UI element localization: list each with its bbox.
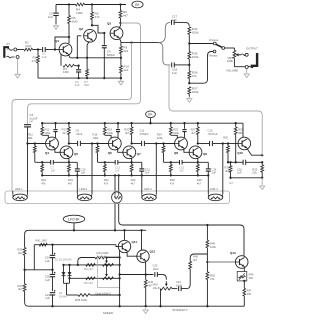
svg-text:Q1: Q1 — [55, 39, 59, 43]
svg-text:4k7: 4k7 — [125, 131, 130, 135]
wire Q12 collector — [141, 230, 143, 250]
svg-text:100k: 100k — [107, 131, 113, 135]
svg-text:R20: R20 — [124, 128, 129, 132]
svg-text:R49: R49 — [249, 273, 254, 277]
wire Q9 emitter down — [197, 158, 199, 162]
svg-text:C13: C13 — [115, 165, 120, 169]
wire Q11 emitter to Q12 base — [127, 251, 137, 256]
svg-text:100k: 100k — [173, 131, 179, 135]
wire: bottom feedback with R45x — [67, 294, 79, 296]
wire Q6 emitter to Q7 base — [118, 148, 124, 153]
junction dots on rail — [68, 3, 70, 5]
jack sleeve + ground — [245, 66, 248, 69]
ground below R10 — [120, 80, 122, 82]
resistor R15 (47k) — [41, 162, 43, 164]
resistor R24 (100k base bias) — [163, 144, 165, 146]
svg-text:INTENSITY: INTENSITY — [172, 308, 188, 312]
svg-text:1uF: 1uF — [145, 171, 150, 175]
svg-text:LDR-3: LDR-3 — [144, 187, 152, 191]
resistor R4 (100k, in rail) — [76, 3, 85, 6]
resistor R11 (68k base bias) — [34, 144, 36, 146]
capacitor C23 (10uF) — [172, 288, 177, 290]
resistor R41 (1M2) — [39, 243, 47, 246]
wire collector jog to Q4 — [42, 135, 48, 138]
svg-text:47k: 47k — [210, 277, 215, 281]
capacitor C22 (10uF) — [154, 272, 156, 277]
svg-text:100k: 100k — [192, 55, 199, 59]
jack sleeve terminal — [7, 56, 15, 58]
svg-text:47k: 47k — [170, 181, 175, 185]
wire: oscillator chain 2 — [70, 277, 120, 279]
wire Q2 collector to Q3 base — [91, 24, 93, 26]
svg-text:1uF: 1uF — [212, 171, 217, 175]
wire: stage 3 emitter bus — [164, 161, 180, 163]
svg-text:68k: 68k — [28, 136, 33, 140]
svg-text:47k: 47k — [104, 181, 109, 185]
svg-text:1uF: 1uF — [179, 169, 184, 173]
transistor Q1 — [59, 43, 72, 56]
capacitor C21 (1uF) — [50, 292, 55, 294]
resistor R13 (4k7) — [68, 123, 70, 127]
resistor R32 (4k7) — [230, 162, 232, 165]
svg-text:100k: 100k — [192, 30, 199, 34]
svg-text:R29: R29 — [197, 178, 202, 182]
svg-text:R28: R28 — [170, 178, 175, 182]
svg-text:R42 4k7: R42 4k7 — [84, 268, 94, 271]
ground of LFO — [145, 308, 147, 310]
svg-text:2k2: 2k2 — [123, 49, 128, 53]
resistor R12 (100k collector load) — [41, 123, 43, 127]
svg-text:100k: 100k — [45, 131, 51, 135]
switch contact: Vibrato — [213, 50, 216, 53]
resistor R27 (4k7) — [197, 123, 199, 127]
svg-text:150: 150 — [247, 292, 252, 296]
svg-text:Chorus: Chorus — [209, 38, 219, 42]
svg-text:100k: 100k — [227, 59, 234, 63]
ground below input jack — [17, 73, 19, 75]
junction node R1/R2/C1 — [37, 48, 39, 50]
node Q7 collector / stage 2 output — [130, 142, 132, 144]
resistor R31 (68k) — [235, 123, 237, 127]
wire W2: Q3 collector to phaser input (long gray route) — [28, 23, 141, 124]
LDR-3 — [141, 175, 143, 194]
capacitor C17 (1uF chorus) — [171, 20, 173, 25]
svg-text:C22: C22 — [153, 264, 158, 268]
svg-text:470k: 470k — [25, 44, 32, 48]
ground at phaser output divider — [261, 184, 263, 186]
svg-text:10uF: 10uF — [176, 283, 182, 287]
capacitor C20 (1uF) — [52, 270, 54, 274]
LDR-2 — [76, 175, 78, 194]
wire riser to Q2 base — [76, 36, 78, 58]
svg-text:Q6: Q6 — [108, 151, 112, 155]
capacitor C9 (.22uF coupling) — [77, 141, 79, 146]
wire to chorus cap C17 — [159, 22, 171, 42]
svg-text:R46: R46 — [193, 255, 198, 259]
wire Q12 emitter — [145, 261, 147, 274]
wire: LFO ground rail — [29, 305, 245, 307]
svg-text:1uF: 1uF — [75, 83, 80, 87]
wire to vibrato cap C18 — [159, 43, 171, 65]
resistor R10 (1k2) — [120, 58, 122, 66]
svg-text:1N34A: 1N34A — [59, 295, 67, 298]
wire collector jog to Q6 — [105, 135, 111, 138]
svg-text:R30: R30 — [223, 135, 228, 139]
wire to vibrato switch contact — [189, 52, 213, 84]
svg-text:R15: R15 — [41, 178, 46, 182]
wire: stage 1 emitter bus — [35, 161, 51, 163]
svg-text:Q4: Q4 — [45, 151, 49, 155]
svg-text:22k: 22k — [252, 171, 257, 175]
svg-text:R50: R50 — [210, 274, 215, 278]
wire link y269.8 — [25, 269, 53, 271]
svg-text:R48: R48 — [210, 242, 215, 246]
wire: feedback line with R44 — [78, 258, 95, 265]
wire: right bus of phase network — [119, 245, 121, 295]
wire: lamp drive line to Q13 — [119, 221, 244, 256]
svg-text:C15: C15 — [208, 129, 213, 133]
resistor R48 (100k) — [206, 225, 208, 240]
svg-text:R43 4k7: R43 4k7 — [84, 282, 94, 285]
svg-text:R22: R22 — [131, 178, 136, 182]
resistor R19 (4k7) — [68, 162, 70, 164]
resistor R43 (4k7) — [86, 277, 95, 280]
svg-text:D1 D2 1N4148: D1 D2 1N4148 — [55, 259, 72, 262]
svg-text:R21: R21 — [104, 178, 109, 182]
VR5 wiper arrow to output — [235, 53, 238, 56]
resistor R8 (4k7) — [120, 5, 122, 11]
svg-text:8k6: 8k6 — [84, 83, 89, 87]
transistor Q11 — [118, 240, 130, 252]
wire Q10 collector to rail — [242, 123, 244, 137]
svg-text:R24: R24 — [157, 133, 162, 137]
svg-text:4k7: 4k7 — [229, 181, 234, 185]
resistor R3 (1M0) — [63, 64, 75, 67]
resistor R7 (8k6 emitter) — [86, 58, 88, 70]
capacitor C15 (.0047uF coupling) — [209, 141, 211, 146]
svg-text:1uF: 1uF — [45, 296, 50, 300]
wire: phaser ground bus — [42, 174, 208, 176]
svg-text:.0047uF: .0047uF — [208, 132, 218, 136]
svg-text:4k7: 4k7 — [62, 131, 67, 135]
resistor R46 (4k7) — [189, 261, 192, 269]
B+ rail of phaser section — [42, 122, 243, 124]
svg-text:10uF: 10uF — [153, 267, 159, 271]
wire: stage 2 base line — [92, 143, 109, 145]
capacitor C1 (1uF input coupling) — [42, 47, 44, 52]
wire common return line — [38, 77, 121, 79]
svg-text:4k7: 4k7 — [131, 181, 136, 185]
svg-text:4k7: 4k7 — [68, 181, 73, 185]
resistor R38 (220k) — [78, 294, 90, 297]
diode D2 (1N4148) — [69, 265, 71, 283]
svg-text:1M0: 1M0 — [72, 19, 78, 23]
capacitor C3 (1uF) — [78, 66, 80, 70]
wire sleeve to ground — [17, 59, 19, 73]
resistor R25 (100k collector load) — [170, 123, 172, 127]
svg-text:100k: 100k — [76, 11, 83, 15]
wire Q8 emitter to Q9 base — [184, 148, 190, 153]
wire Q11 collector — [124, 230, 126, 240]
svg-text:VOLUME: VOLUME — [226, 69, 238, 73]
LDR-4 — [207, 175, 209, 194]
svg-text:4k7: 4k7 — [197, 181, 202, 185]
svg-text:LDR-2: LDR-2 — [79, 187, 87, 191]
svg-text:Q2: Q2 — [79, 27, 83, 31]
svg-text:1uF: 1uF — [172, 18, 177, 22]
svg-text:R32: R32 — [225, 165, 230, 169]
svg-text:C11: C11 — [140, 129, 145, 133]
svg-text:B+: B+ — [148, 113, 152, 117]
svg-text:Q13: Q13 — [230, 251, 236, 255]
capacitor C18 (1uF vibrato) — [171, 62, 173, 67]
transistor Q13 (lamp driver) — [235, 256, 248, 269]
transistor Q9 — [189, 146, 202, 159]
resistor R1 (470k input) — [17, 49, 24, 51]
svg-text:Q10: Q10 — [237, 151, 243, 155]
svg-text:C9: C9 — [76, 129, 80, 133]
pot VR1b (speed gang B) — [103, 277, 114, 280]
resistor R45 (4k7) — [145, 275, 147, 281]
svg-text:C13: C13 — [179, 165, 184, 169]
wire: stage 2 emitter bus — [98, 161, 116, 163]
svg-text:1uF: 1uF — [81, 171, 86, 175]
wire base jog — [116, 245, 118, 247]
svg-text:68k: 68k — [238, 131, 243, 135]
resistor R2 (47k to ground) — [37, 50, 39, 56]
svg-text:OUTPUT: OUTPUT — [246, 46, 258, 50]
resistor R36 (47k) — [188, 65, 190, 71]
svg-text:C7: C7 — [51, 165, 55, 169]
wire: LFO output line — [120, 274, 154, 276]
resistor R6 (47k collector load) — [91, 5, 93, 13]
wire Q13 emitter — [243, 267, 245, 271]
pot VR2 (10k-B intensity) — [165, 281, 167, 285]
wire Q1 base-bias branch down — [60, 55, 62, 66]
capacitor C5 (1uF supply filter) — [55, 5, 57, 13]
wire Q3 emitter line — [120, 39, 121, 42]
svg-text:R12: R12 — [45, 128, 50, 132]
resistor R50 (47k) — [206, 262, 208, 272]
resistor R16 (100k base bias) — [97, 144, 99, 146]
node Q13 base feed — [206, 261, 208, 263]
svg-text:C14: C14 — [212, 167, 217, 171]
switch contact: Chorus — [213, 42, 216, 45]
node Q9 collector / stage 3 output — [197, 142, 199, 144]
wire Q1 emitter line — [68, 54, 70, 58]
svg-text:47k: 47k — [192, 74, 197, 78]
svg-text:4k7: 4k7 — [191, 131, 196, 135]
svg-text:Q3: Q3 — [107, 22, 111, 26]
resistor R28 (47k) — [170, 162, 172, 164]
svg-text:Q8: Q8 — [174, 151, 178, 155]
svg-text:1uF: 1uF — [45, 278, 50, 282]
svg-text:R27: R27 — [191, 128, 196, 132]
capacitor C12 (1uF electrolytic) — [141, 162, 143, 168]
resistor R47 (150) — [243, 281, 245, 288]
lamp leads — [114, 175, 116, 192]
stage 4: base line — [223, 143, 239, 145]
potentiometer VR5 (100k volume) — [233, 48, 235, 50]
transistor Q2 — [84, 29, 97, 42]
resistor R18 (100k collector load) — [104, 123, 106, 127]
svg-text:4k7: 4k7 — [18, 287, 23, 291]
resistor R37 (220k) — [188, 87, 191, 95]
lamp — [112, 192, 122, 203]
wire W3: phaser output up to chorus/vibrato (gray route) — [169, 65, 262, 155]
svg-text:1uF: 1uF — [42, 55, 47, 59]
input jack IN — [4, 47, 9, 58]
svg-text:47k: 47k — [95, 15, 100, 19]
svg-text:Q7: Q7 — [137, 152, 141, 156]
wire: LFO supply rail — [29, 229, 147, 231]
resistor R21 (47k) — [104, 162, 106, 164]
svg-text:C23: C23 — [176, 280, 181, 284]
ground below C5 — [55, 24, 57, 26]
resistor R29 (4k7) — [197, 162, 199, 164]
svg-text:Vibrato: Vibrato — [209, 54, 218, 58]
svg-text:NP: NP — [30, 119, 34, 123]
wire Q7 emitter down — [131, 158, 133, 162]
transistor Q5 — [60, 146, 73, 159]
svg-text:IN: IN — [7, 42, 10, 46]
transistor Q10 — [238, 137, 251, 150]
node: chorus tap — [188, 42, 190, 44]
svg-text:LFO B+: LFO B+ — [68, 217, 80, 221]
svg-text:VR2: VR2 — [153, 283, 159, 287]
svg-text:LDR-4: LDR-4 — [210, 187, 218, 191]
capacitor C6 (phaser input, 2x1uF) — [24, 124, 31, 126]
resistor R22 (4k7) — [131, 162, 133, 164]
svg-text:C16: C16 — [237, 167, 242, 171]
svg-text:R33: R33 — [252, 167, 257, 171]
wire: diode bottoms — [64, 282, 70, 284]
svg-text:Q5: Q5 — [74, 152, 78, 156]
svg-text:R16: R16 — [93, 133, 98, 137]
svg-text:100k: 100k — [157, 136, 163, 140]
transistor Q7 — [123, 146, 136, 159]
node Q5 collector / stage 1 output — [68, 142, 70, 144]
capacitor C16 (1uF) — [242, 160, 244, 165]
svg-text:Q11: Q11 — [132, 240, 138, 244]
svg-text:R18: R18 — [107, 128, 112, 132]
resistor R5 (1M0) with feedback wire to Q1 base — [68, 5, 70, 16]
svg-text:1uF: 1uF — [48, 15, 53, 19]
capacitor C4 (680pF at Q3 base) — [103, 32, 105, 34]
svg-text:R13: R13 — [62, 128, 67, 132]
LFO B+ oval — [63, 215, 85, 223]
wire Q3 collector node — [119, 26, 120, 29]
dual gang box (speed pot) — [98, 257, 120, 288]
transistor Q4 — [46, 137, 59, 150]
svg-text:220k: 220k — [192, 90, 199, 94]
resistor R30 (4k7 base bias) — [227, 144, 229, 146]
ground below R37 — [188, 97, 190, 99]
svg-text:LDR-1: LDR-1 — [15, 187, 23, 191]
svg-text:R11: R11 — [28, 133, 33, 137]
svg-text:R41 1M2: R41 1M2 — [36, 238, 48, 242]
wire Q10 emitter to output node — [247, 148, 262, 155]
resistor R42 (4k7) — [86, 264, 95, 267]
svg-text:1uF: 1uF — [172, 71, 177, 75]
svg-text:10k-B: 10k-B — [153, 286, 160, 290]
svg-text:4k7: 4k7 — [225, 169, 230, 173]
wire Q5 emitter down — [68, 158, 70, 162]
svg-text:1uF: 1uF — [51, 169, 56, 173]
node: phaser output — [261, 154, 263, 156]
diode D1 (1N4148) — [63, 265, 65, 283]
pot VR1a (speed gang A) — [103, 264, 114, 267]
wire W1: to LDR-1 (long gray route) — [12, 43, 132, 191]
resistor R9 (2k2) — [120, 43, 122, 47]
svg-text:2k2: 2k2 — [18, 251, 23, 255]
resistor R39 (2k2) — [24, 234, 26, 247]
switch arm and pole (chorus/vibrato switch) — [216, 44, 222, 47]
resistor R33 (22k) — [261, 162, 263, 165]
capacitor (rail bypass) at stage 2 — [117, 123, 119, 129]
wire: phase network top line — [34, 244, 116, 246]
svg-text:1M0: 1M0 — [63, 70, 69, 74]
svg-text:100k: 100k — [93, 136, 99, 140]
svg-text:1uF: 1uF — [237, 171, 242, 175]
B+ supply oval — [132, 1, 143, 8]
jack tip terminal — [14, 48, 17, 51]
resistor R40 (4k7) — [24, 270, 26, 284]
svg-text:1k2: 1k2 — [123, 68, 128, 72]
wire: oscillator chain 1 — [64, 264, 120, 266]
svg-text:47k: 47k — [32, 59, 37, 63]
svg-text:R38 220k: R38 220k — [75, 298, 88, 302]
wire Q4 emitter to Q5 base — [55, 148, 61, 153]
capacitor (rail bypass) at stage 3 — [184, 123, 186, 129]
wire: stage 1 base line — [28, 143, 47, 145]
transistor Q8 — [175, 137, 188, 150]
wire collector jog to Q8 — [171, 135, 178, 138]
wire Q2 emitter down to R7 — [87, 41, 89, 58]
wire: top B+ rail — [56, 4, 76, 6]
light shield box (lamp + LDRs) — [5, 191, 230, 204]
svg-text:500: 500 — [249, 276, 254, 280]
svg-text:R19: R19 — [68, 178, 73, 182]
wire: stage 3 base line — [156, 143, 175, 145]
resistor R35 (100k) — [188, 52, 191, 60]
resistor R44 (220k) — [95, 256, 106, 259]
wire Q1 collector up to R5 node — [68, 37, 70, 43]
LDR-1 — [12, 191, 14, 194]
svg-text:100k: 100k — [210, 245, 216, 249]
svg-text:C10: C10 — [81, 167, 86, 171]
capacitor C11 (4700pF coupling) — [141, 141, 143, 146]
resistor R34 (100k) — [185, 22, 189, 26]
trimmer R49 (500 lamp bias) — [237, 272, 247, 281]
svg-text:B+: B+ — [135, 3, 139, 7]
svg-text:1uF: 1uF — [45, 259, 50, 263]
svg-text:Q12: Q12 — [150, 250, 156, 254]
svg-text:680pF: 680pF — [107, 53, 115, 57]
wire bottom return stage 4 — [231, 177, 263, 179]
svg-text:R44 220k: R44 220k — [97, 251, 110, 255]
transistor Q3 — [110, 27, 123, 40]
B+ oval (phaser) — [146, 111, 156, 118]
capacitor C19 (1uF) — [52, 245, 54, 255]
svg-text:4k7: 4k7 — [123, 13, 128, 17]
svg-text:C12: C12 — [145, 167, 150, 171]
capacitor (rail bypass) at stage 1 — [55, 123, 57, 129]
svg-text:1uF: 1uF — [115, 169, 120, 173]
resistor R20 (4k7) — [131, 123, 133, 127]
svg-text:47k: 47k — [41, 181, 46, 185]
svg-text:4700pF: 4700pF — [140, 132, 149, 136]
